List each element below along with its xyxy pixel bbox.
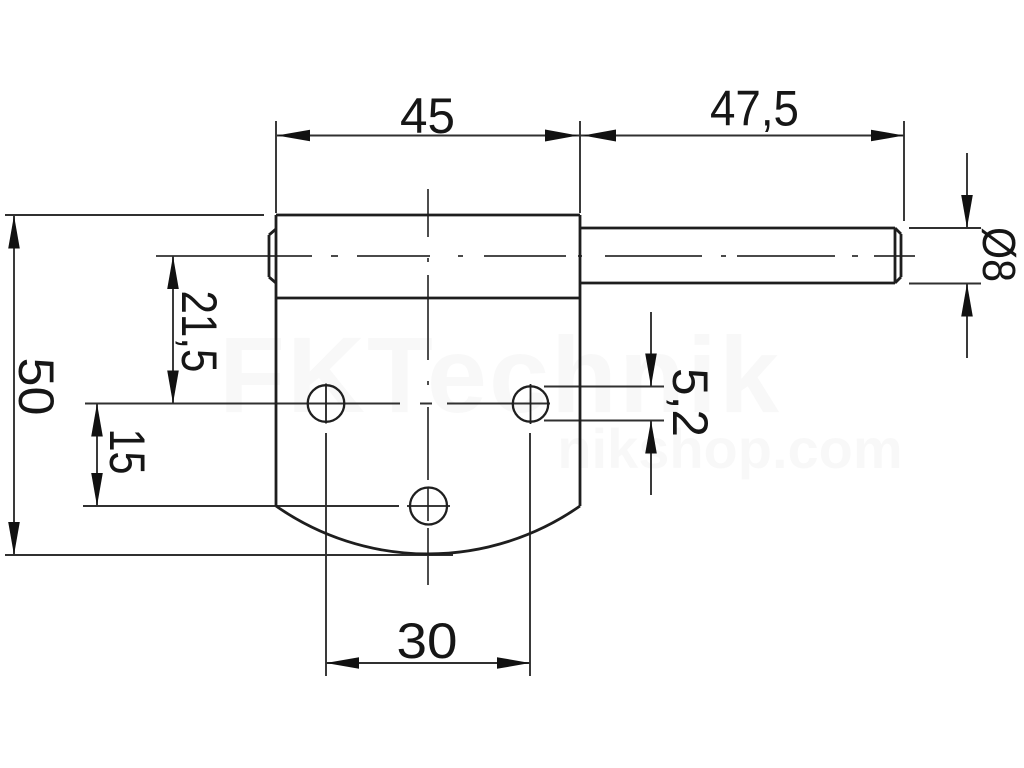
- extension line 30 right: [529, 433, 531, 676]
- arrow 50 top: [8, 216, 20, 249]
- arrow 47.5 right: [871, 130, 904, 142]
- arrow 45 left: [277, 130, 310, 142]
- arrow 21.5 top: [167, 256, 179, 289]
- extension line 5.2 bottom: [544, 420, 664, 422]
- dimension line 30: [326, 662, 530, 664]
- dimension line 5.2: [650, 312, 652, 495]
- svg-text:50: 50: [8, 358, 64, 416]
- dimension line 21.5: [172, 256, 174, 404]
- dimension texts: [8, 81, 1024, 670]
- arrow 30 left: [326, 657, 359, 669]
- hole right crosshair: [530, 384, 532, 424]
- extension line 45/47.5 middle: [579, 121, 581, 213]
- dimension line 50: [13, 216, 15, 556]
- plate left edge: [275, 215, 278, 506]
- barrel bottom edge: [276, 297, 580, 300]
- pin top edge: [580, 227, 895, 230]
- svg-text:nikshop.com: nikshop.com: [557, 417, 902, 480]
- hole left crosshair: [325, 384, 327, 424]
- pin bottom edge: [580, 282, 895, 285]
- plate right edge: [579, 215, 582, 506]
- bottom hole line y=506: [83, 505, 399, 507]
- arrowheads: [8, 130, 973, 669]
- extension line d8 bottom: [909, 283, 981, 285]
- arrow 21.5 bottom: [167, 371, 179, 404]
- extension line 5.2 top: [544, 386, 664, 388]
- extension line 45 left: [275, 121, 277, 213]
- extension line d8 top: [909, 227, 981, 229]
- dimension line d8: [966, 153, 968, 358]
- arrow 5.2 lower: [645, 421, 657, 454]
- svg-text:15: 15: [99, 429, 155, 475]
- extension line 47.5 right: [903, 121, 905, 221]
- dimension line 47.5: [580, 135, 904, 137]
- svg-text:45: 45: [400, 88, 455, 144]
- pin chamfer edge: [894, 228, 897, 283]
- svg-text:5,2: 5,2: [662, 368, 718, 437]
- hole right: [513, 386, 548, 421]
- pin end face: [895, 228, 901, 283]
- dimension line 45: [277, 135, 580, 137]
- arrow 47.5 left: [583, 130, 616, 142]
- dimension line 15: [96, 404, 98, 507]
- hole bottom: [410, 488, 447, 525]
- centerline horizontal (pin axis): [156, 255, 915, 257]
- arrow 15 top: [91, 404, 103, 437]
- hole left: [308, 385, 345, 422]
- centerline vertical (plate axis): [427, 189, 429, 585]
- pin left protrusion: [269, 229, 276, 283]
- extension line 50 top: [5, 214, 264, 216]
- svg-text:30: 30: [397, 613, 458, 669]
- extension line 50 bottom: [5, 554, 453, 556]
- arrow 5.2 upper: [645, 354, 657, 387]
- hole row line y=403.5: [85, 403, 550, 405]
- watermark: [219, 314, 903, 480]
- body outline: [269, 215, 901, 554]
- arrow 15 bottom: [91, 473, 103, 506]
- holes: [308, 384, 549, 525]
- barrel top edge: [276, 214, 580, 217]
- arrow 30 right: [497, 657, 530, 669]
- arrow d8 lower: [961, 284, 973, 317]
- extension line 30 left: [325, 433, 327, 676]
- arrow 50 bottom: [8, 522, 20, 555]
- hole bottom crosshair: [407, 505, 450, 507]
- svg-text:Ø8: Ø8: [973, 227, 1024, 282]
- arrow d8 upper: [961, 195, 973, 228]
- plate bottom arc: [276, 506, 580, 554]
- svg-text:21,5: 21,5: [171, 291, 227, 373]
- svg-text:47,5: 47,5: [710, 81, 799, 137]
- arrow 45 right: [545, 130, 578, 142]
